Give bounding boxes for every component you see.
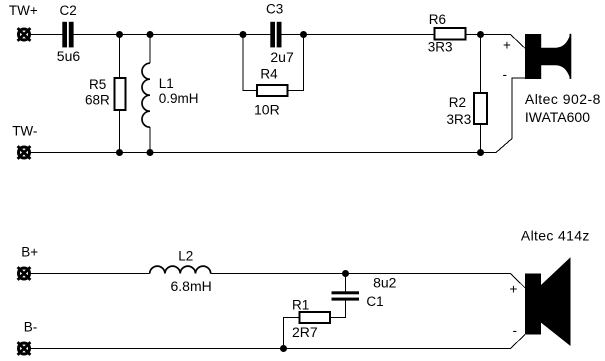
svg-text:C1: C1 <box>366 294 383 309</box>
terminal TW+ <box>18 28 31 41</box>
junction at C3 left <box>240 31 247 38</box>
wire C2 to C3 <box>74 34 271 36</box>
svg-text:68R: 68R <box>85 92 110 107</box>
wire R2 bottom stub <box>480 124 482 153</box>
svg-text:Altec 902-8: Altec 902-8 <box>525 91 601 107</box>
capacitor C3 <box>270 22 281 48</box>
wire diagonal to horn plus <box>511 35 526 49</box>
svg-text:2u7: 2u7 <box>270 49 294 65</box>
wire diagonal to woofer plus <box>511 274 526 288</box>
junction at L1 top <box>147 31 154 38</box>
wire R5 top stub <box>119 35 121 79</box>
resistor R4 <box>257 85 288 96</box>
wire TW- bottom rail <box>30 152 496 154</box>
wire L1 top stub <box>149 35 151 64</box>
wire L1 bottom stub <box>149 127 151 152</box>
svg-text:5u6: 5u6 <box>57 48 81 64</box>
junction at R5 top <box>116 31 123 38</box>
svg-text:-: - <box>513 323 518 338</box>
svg-text:L1: L1 <box>159 76 174 91</box>
terminal TW- <box>18 146 31 159</box>
terminal B- <box>18 342 31 355</box>
svg-text:B-: B- <box>24 319 38 334</box>
resistor R2 <box>474 93 487 124</box>
junction L1 bottom <box>147 149 154 156</box>
svg-text:6.8mH: 6.8mH <box>171 278 212 294</box>
svg-text:Altec 414z: Altec 414z <box>521 228 590 244</box>
inductor L1 <box>142 63 150 127</box>
svg-text:+: + <box>503 38 511 53</box>
junction at C3 right <box>300 31 307 38</box>
svg-text:B+: B+ <box>21 244 38 259</box>
svg-text:3R3: 3R3 <box>447 112 472 127</box>
svg-text:+: + <box>510 282 518 297</box>
svg-text:TW-: TW- <box>12 124 37 139</box>
svg-text:R5: R5 <box>89 77 106 92</box>
svg-text:C2: C2 <box>60 3 77 18</box>
speaker driver U1 body <box>525 34 541 79</box>
svg-text:-: - <box>503 67 508 82</box>
svg-text:0.9mH: 0.9mH <box>159 91 199 106</box>
capacitor C1 <box>332 291 360 300</box>
wire L2 to speaker <box>211 273 511 275</box>
svg-text:IWATA600: IWATA600 <box>525 109 590 125</box>
junction R2 bottom <box>477 149 484 156</box>
junction at R2 top <box>477 31 484 38</box>
junction R1 bottom <box>280 345 287 352</box>
terminal B+ <box>18 267 31 280</box>
wire TW+ to C2 <box>30 34 62 36</box>
speaker horn bell <box>541 36 570 78</box>
wire R4 left leg <box>243 35 257 91</box>
resistor R1 <box>299 312 330 323</box>
svg-text:R1: R1 <box>292 297 309 312</box>
junction R5 bottom <box>116 149 123 156</box>
wire R4 right leg <box>288 35 304 91</box>
svg-text:10R: 10R <box>254 101 280 117</box>
svg-text:R6: R6 <box>429 12 446 27</box>
inductor L2 <box>150 266 211 273</box>
svg-text:R2: R2 <box>449 95 466 110</box>
svg-text:C3: C3 <box>266 1 283 16</box>
svg-text:TW+: TW+ <box>9 3 38 18</box>
svg-text:L2: L2 <box>178 249 193 264</box>
wire R2 top stub <box>480 35 482 94</box>
speaker woofer cone <box>541 257 571 346</box>
speaker woofer body <box>525 274 541 335</box>
wire B- rail <box>30 348 511 350</box>
svg-text:8u2: 8u2 <box>373 274 397 290</box>
svg-text:3R3: 3R3 <box>428 40 453 55</box>
wire R5 bottom stub <box>119 110 121 153</box>
wire horn minus path <box>496 78 525 153</box>
resistor R6 <box>435 28 466 39</box>
wire R6 to speaker <box>466 34 511 36</box>
svg-text:2R7: 2R7 <box>292 324 318 340</box>
wire C1 top stub <box>345 274 347 292</box>
speaker horn mouth <box>570 34 572 79</box>
wire C3 to R6 <box>282 34 435 36</box>
junction C1 top <box>342 270 349 277</box>
wire diagonal to woofer minus <box>511 335 526 349</box>
wire B+ to L2 <box>30 273 150 275</box>
svg-text:R4: R4 <box>260 67 278 82</box>
resistor R5 <box>115 78 126 110</box>
wire R1 to B- rail <box>284 317 300 348</box>
wire C1 to R1 <box>330 301 345 318</box>
capacitor C2 <box>62 22 73 48</box>
